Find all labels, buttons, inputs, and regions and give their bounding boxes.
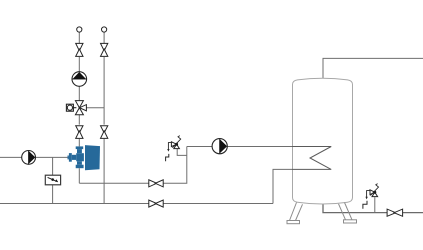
shut-off valve left riser lower <box>76 126 83 139</box>
shut-off valve left riser top <box>76 43 83 56</box>
gate valve on drain line <box>387 209 403 216</box>
pump charge circulator <box>212 139 227 154</box>
tank left leg <box>287 203 303 224</box>
wire: 3-way valve outlet to right riser <box>86 107 104 109</box>
wire: right riser pipe (x=104.1) <box>103 32 105 203</box>
wire: secondary flow line y=183.3 to riser x=186.8 <box>79 147 187 184</box>
wire: tank drain pipe <box>323 204 423 213</box>
pump circulator vertical <box>72 72 87 87</box>
safety relief valve on riser <box>166 136 187 162</box>
wire: flow line to tank coil with V bend <box>187 147 331 204</box>
tank right leg <box>339 203 357 224</box>
pump primary circulator <box>22 151 36 165</box>
air vent cap right riser <box>102 27 107 32</box>
wire: bypass branch x=52.6 <box>52 157 54 203</box>
wire: bottom return line y=203.5 <box>0 203 273 205</box>
3-way mixing valve <box>75 101 86 115</box>
check valve box with arrow <box>45 175 60 185</box>
gate valve on flow line y=183.3 <box>149 180 163 187</box>
wire: primary supply line y=157.4 <box>0 156 69 158</box>
safety relief valve at tank drain <box>363 184 379 213</box>
air vent cap left riser <box>77 27 82 32</box>
actuator of 3-way valve <box>66 104 76 111</box>
wire: tank top pipe <box>323 58 423 79</box>
wire: left riser pipe segments (x=79.3) <box>78 32 80 183</box>
blue inline pump with motor <box>68 145 101 170</box>
tank heating coil inside <box>292 147 331 170</box>
gate valve on return line y=203.5 <box>149 200 163 207</box>
tank: buffer cylinder <box>293 78 353 204</box>
shut-off valve right riser top <box>101 43 108 56</box>
shut-off valve right riser lower <box>101 126 108 139</box>
